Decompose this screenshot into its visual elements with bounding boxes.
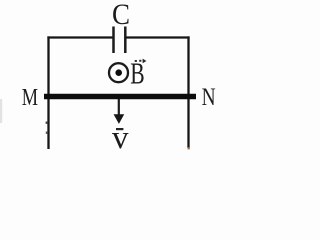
velocity arrow (downward from rod) bbox=[114, 99, 125, 124]
wire: right rail (vertical) bbox=[187, 36, 189, 148]
label v with macron bbox=[112, 120, 129, 156]
scan artifact: nubs on left rail bbox=[46, 122, 48, 124]
wire: top wire, left segment to capacitor bbox=[47, 36, 113, 38]
svg-text:v: v bbox=[112, 120, 129, 156]
svg-text:M: M bbox=[22, 84, 38, 111]
wire: top wire, right segment from capacitor bbox=[126, 36, 190, 38]
vector arrow over B (dotted) bbox=[135, 59, 147, 64]
scan artifact: faint smudge at left edge bbox=[0, 99, 2, 123]
svg-text:N: N bbox=[202, 82, 216, 111]
scan artifact: dot at right rail tip bbox=[188, 147, 190, 149]
capacitor C (plates) bbox=[114, 27, 126, 54]
svg-text:C: C bbox=[112, 0, 130, 31]
svg-text:B: B bbox=[130, 55, 144, 90]
B field symbol: circled dot (field out of page) bbox=[109, 63, 128, 82]
rod MN (thick conducting bar) bbox=[44, 94, 196, 99]
wire: left rail (vertical) bbox=[47, 36, 49, 149]
